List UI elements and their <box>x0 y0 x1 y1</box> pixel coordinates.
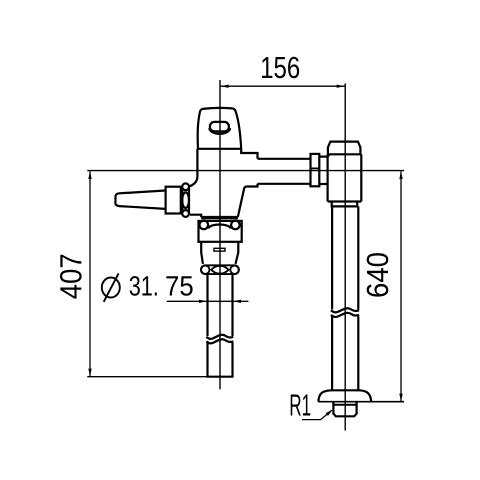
body bottom thick edge <box>201 216 238 219</box>
elbow body <box>328 154 362 201</box>
ball ring right ball <box>230 266 238 274</box>
spud nut ball right <box>231 221 240 230</box>
lever ball top <box>182 183 189 190</box>
spud pipe taper left <box>201 242 203 264</box>
left pipe break wave lower <box>206 339 233 343</box>
extension line 407 bottom <box>87 376 207 378</box>
dimension text 407 rotated <box>60 255 82 299</box>
arrow 156 right <box>337 85 345 88</box>
flange lip line <box>333 404 356 406</box>
outlet pipe top edge <box>258 158 311 160</box>
horizontal inlet axis line <box>87 170 404 172</box>
label text R1 <box>291 395 311 416</box>
floor line <box>318 401 404 403</box>
right flush pipe lower walls <box>331 316 333 391</box>
arrow phi right <box>233 300 241 303</box>
right flush pipe upper walls <box>331 206 333 309</box>
spigot below floor <box>333 402 356 417</box>
stub pipe bottom <box>319 183 327 185</box>
arrow R1 leader <box>326 410 333 416</box>
dimension phi31.75 line <box>167 300 249 302</box>
dome slot lower ellipse arc <box>209 128 230 134</box>
stub pipe top <box>319 156 327 158</box>
dimension text 156 <box>262 57 299 79</box>
arrow 640 top <box>399 171 402 179</box>
spud coupling nut <box>199 221 242 242</box>
leader line R1 <box>302 410 332 419</box>
left supply pipe lower walls <box>206 343 208 377</box>
ball ring stadium <box>201 265 239 274</box>
body left lower step <box>190 215 201 218</box>
elbow joint line <box>328 153 362 155</box>
outlet nut ridge <box>311 167 320 169</box>
valve body dome <box>198 108 242 149</box>
dimension text 640 rotated <box>367 253 389 297</box>
lever ball joint column <box>181 188 183 214</box>
dimension 407 line <box>89 171 91 376</box>
spud nut middle arch <box>209 225 231 229</box>
arrow 407 top <box>88 171 91 179</box>
lever ball bottom <box>182 210 189 217</box>
dome shoulder line <box>197 148 241 150</box>
phi symbol <box>102 273 120 301</box>
elbow cap <box>328 142 361 155</box>
elbow collar <box>332 202 358 207</box>
dome slot upper stadium <box>210 122 229 131</box>
arrow 640 bottom <box>399 394 402 402</box>
ball ring left ball <box>201 266 209 274</box>
left pipe bottom end <box>206 376 233 378</box>
arrow 407 bottom <box>88 369 91 377</box>
body left edge <box>190 149 198 186</box>
spud sight window <box>214 248 225 251</box>
outlet coupling nut <box>311 154 320 186</box>
centerline right pipe axis <box>344 84 346 431</box>
spud pipe taper right <box>236 242 239 264</box>
outlet pipe bottom edge <box>258 183 311 185</box>
arrow phi left <box>199 300 207 303</box>
right pipe break wave lower <box>331 313 359 317</box>
left supply pipe upper walls <box>206 274 208 336</box>
body right face below outlet <box>238 184 258 217</box>
ball ring middle lens <box>211 266 228 274</box>
lever ball middle <box>182 192 189 208</box>
centerline left pipe axis <box>219 80 221 389</box>
lever ferrule <box>166 187 181 214</box>
left pipe break wave upper <box>206 335 233 339</box>
spud nut ball left <box>200 221 209 230</box>
dimension text 75 <box>166 276 192 296</box>
dimension text 31. <box>130 276 157 296</box>
lever handle <box>115 191 165 209</box>
elbow joint notch <box>327 155 330 159</box>
right pipe break wave upper <box>331 308 359 312</box>
dimension 640 line <box>400 171 402 401</box>
floor flange dome <box>318 390 371 401</box>
arrow 156 left <box>221 85 229 88</box>
body step right of dome <box>241 149 257 159</box>
dimension 156 line <box>220 85 345 87</box>
